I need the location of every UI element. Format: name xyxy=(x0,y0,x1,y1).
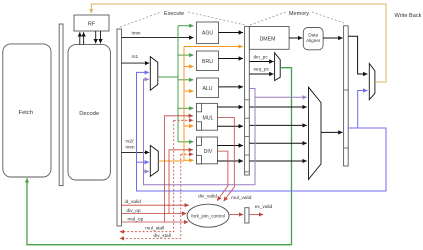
ellipse fork_join_control xyxy=(187,204,229,227)
unit AGU xyxy=(197,22,219,44)
svg-text:Data: Data xyxy=(308,32,318,37)
wire id_valid xyxy=(122,204,190,206)
wire MUL result hi to EX/MEM xyxy=(218,106,244,108)
mux rs1 forwarding xyxy=(150,57,158,91)
svg-text:Decode: Decode xyxy=(79,111,99,117)
wire rs1 to mux xyxy=(122,62,150,64)
unit MUL xyxy=(197,103,218,130)
wire div_op xyxy=(122,213,187,215)
wire Decode to RF read port 1 xyxy=(79,32,81,44)
svg-text:Execute: Execute xyxy=(164,11,184,17)
wire rs2 to mux xyxy=(122,151,150,153)
mux next pc xyxy=(275,53,281,81)
svg-text:mul_valid: mul_valid xyxy=(231,195,252,201)
wire tkn_pc to pc mux xyxy=(250,61,274,63)
net writeback bus blue xyxy=(137,72,387,191)
svg-text:fork_join_control: fork_join_control xyxy=(191,213,225,218)
red control network xyxy=(122,116,264,222)
block Data Aligner xyxy=(303,28,323,50)
wire EX/MEM to writeback select mux 4 xyxy=(250,160,307,162)
stage separator dashes (Execute left) xyxy=(120,12,161,27)
svg-text:div_op: div_op xyxy=(127,208,141,214)
wire div_valid tap xyxy=(217,151,228,201)
wire div_stall dashed xyxy=(120,154,181,238)
svg-text:DMEM: DMEM xyxy=(260,36,276,42)
wire imm to AGU xyxy=(122,37,194,39)
wire MUL result lo to EX/MEM xyxy=(218,125,244,127)
svg-text:DIV: DIV xyxy=(204,149,213,155)
stage separator dashes (Memory left) xyxy=(250,12,286,25)
svg-text:Fetch: Fetch xyxy=(19,110,34,116)
net rs2 operand orange xyxy=(158,47,243,162)
wire div issue xyxy=(169,150,193,214)
wire EX/MEM to writeback select mux 1 xyxy=(250,106,307,108)
wire EX/MEM to writeback select mux 3 xyxy=(250,142,307,144)
net memory forward bus purple xyxy=(144,79,307,185)
svg-text:AGU: AGU xyxy=(202,31,213,37)
stage separator dashes (Execute right) xyxy=(188,12,245,25)
pipeline register ID/EX xyxy=(117,29,122,226)
svg-text:imm: imm xyxy=(126,145,135,151)
svg-text:ex_valid: ex_valid xyxy=(255,204,273,210)
pipeline register EX/MEM xyxy=(245,26,250,175)
wire mul issue dashed stub xyxy=(174,119,194,121)
wire RF to Decode read data 1 xyxy=(95,31,97,43)
wire DIV result lo to EX/MEM xyxy=(218,160,244,162)
mux writeback xyxy=(369,64,375,100)
wire mul issue xyxy=(165,116,194,222)
pipeline register IF/ID xyxy=(59,24,63,186)
svg-text:div_stall: div_stall xyxy=(154,233,171,239)
svg-text:imm: imm xyxy=(132,31,141,37)
svg-text:id_valid: id_valid xyxy=(125,199,142,205)
block Decode xyxy=(68,45,110,180)
wire ALU result to EX/MEM xyxy=(219,86,244,88)
red dashed control network xyxy=(120,120,193,238)
wire mul_valid tap xyxy=(217,118,234,202)
wire div issue dashed stub xyxy=(181,153,193,155)
wire DIV result hi to EX/MEM xyxy=(218,145,244,147)
svg-text:Memory: Memory xyxy=(289,11,309,17)
wire BRU result to EX/MEM xyxy=(219,58,244,60)
wire EX/MEM to writeback select mux 2 xyxy=(250,124,307,126)
svg-text:Write Back: Write Back xyxy=(395,13,422,19)
wire writeback select mux to MEM/WB xyxy=(321,131,343,133)
stage separator dashes (Memory right) xyxy=(312,12,344,23)
net writeback to RF gold xyxy=(91,4,386,82)
mux writeback select xyxy=(309,87,322,179)
svg-text:BRU: BRU xyxy=(202,59,213,65)
block Fetch xyxy=(3,44,51,177)
wire DMEM to Data Aligner xyxy=(289,37,302,39)
pipeline register MEM/WB xyxy=(344,26,349,166)
wire RF to Decode read data 2 xyxy=(100,31,102,43)
svg-text:rs1: rs1 xyxy=(132,54,139,60)
svg-text:MUL: MUL xyxy=(203,115,214,121)
svg-text:tkn_pc: tkn_pc xyxy=(254,55,269,61)
wire Decode to RF read port 2 xyxy=(83,32,85,44)
svg-text:ALU: ALU xyxy=(202,86,212,92)
svg-text:RF: RF xyxy=(88,22,96,28)
svg-text:mul_stall: mul_stall xyxy=(145,226,164,232)
unit DIV xyxy=(197,137,218,164)
svg-text:mul_op: mul_op xyxy=(128,216,144,222)
block RF register file xyxy=(74,15,109,31)
net next pc feedback green xyxy=(27,68,292,245)
svg-text:rs2/: rs2/ xyxy=(126,139,135,145)
svg-text:div_valid: div_valid xyxy=(198,193,217,199)
svg-text:Aligner: Aligner xyxy=(306,38,321,43)
svg-text:seq_pc: seq_pc xyxy=(254,67,270,72)
wire AGU result to EX/MEM xyxy=(219,32,244,34)
mux rs2 forwarding xyxy=(150,145,158,176)
wire seq_pc to pc mux xyxy=(250,73,274,75)
unit BRU xyxy=(197,51,219,71)
wire mul_stall dashed xyxy=(120,120,174,231)
control signal labels xyxy=(125,193,273,238)
wire Data Aligner to MEM/WB xyxy=(323,37,343,39)
block DMEM xyxy=(249,27,289,50)
wire MEM/WB to wb mux xyxy=(348,36,367,74)
wire mul_op xyxy=(122,221,189,223)
wire fork join to ex_valid xyxy=(229,214,243,216)
net rs1 operand green xyxy=(158,26,194,142)
control pipeline register ex_valid xyxy=(245,208,249,223)
unit ALU xyxy=(197,78,219,98)
